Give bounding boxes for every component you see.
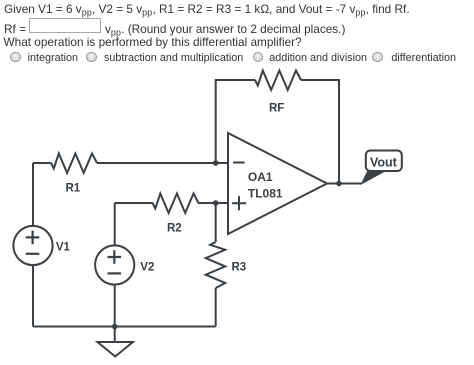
wire: [327, 183, 362, 185]
node ground: [112, 324, 118, 330]
svg-text:Vout: Vout: [370, 155, 398, 169]
node output: [336, 181, 342, 187]
wire: [198, 202, 228, 204]
wire: [32, 265, 34, 326]
resistor R3: [206, 242, 226, 288]
svg-text:V1: V1: [56, 242, 71, 254]
wire: [33, 326, 216, 328]
wire: [215, 288, 217, 327]
probe Vout: [362, 151, 402, 184]
resistor R1: [51, 154, 97, 174]
svg-text:RF: RF: [269, 103, 284, 115]
svg-text:V2: V2: [140, 262, 154, 274]
wire: [33, 162, 51, 164]
svg-text:TL081: TL081: [248, 186, 283, 200]
wire: [32, 163, 34, 226]
wire: [115, 202, 153, 204]
source V1: [13, 226, 52, 265]
node plus input: [213, 200, 219, 206]
svg-text:R3: R3: [232, 262, 247, 274]
ground: [98, 327, 133, 357]
resistor RF: [255, 71, 301, 91]
wire: [301, 80, 339, 184]
wire: [215, 203, 217, 242]
source V2: [95, 245, 134, 284]
wire: [216, 80, 255, 163]
wire: [97, 162, 228, 164]
op-amp OA1: [228, 133, 327, 234]
resistor R2: [153, 194, 199, 214]
node minus input: [213, 160, 219, 166]
svg-text:OA1: OA1: [248, 170, 273, 184]
wire: [114, 203, 116, 245]
wire: [114, 285, 116, 327]
svg-text:R1: R1: [66, 183, 81, 195]
svg-text:R2: R2: [167, 223, 182, 235]
